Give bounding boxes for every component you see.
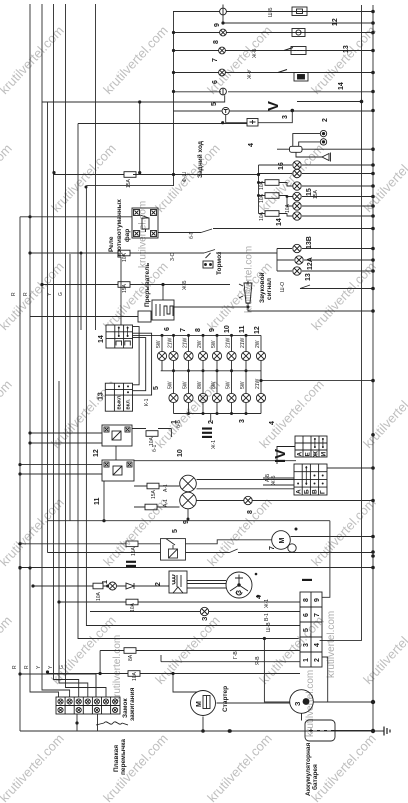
svg-text:1: 1	[102, 580, 109, 584]
battery	[305, 720, 335, 741]
wire row y271 lamp13	[277, 270, 373, 272]
fuse 15A fog	[124, 172, 136, 178]
junction dots bottom	[18, 519, 375, 733]
svg-text:1: 1	[171, 420, 178, 424]
svg-text:6: 6	[212, 80, 219, 84]
svg-text:Ж-Б: Ж-Б	[182, 280, 188, 290]
svg-text:М: М	[279, 538, 286, 544]
svg-text:4: 4	[256, 595, 263, 599]
wire bus-Y2 left vertical	[47, 102, 49, 553]
svg-text:З-О: З-О	[170, 252, 176, 261]
lamp 7	[219, 47, 226, 54]
svg-text:Ф-Ш: Ф-Ш	[182, 172, 188, 182]
svg-text:В: В	[312, 489, 319, 494]
svg-text:8: 8	[247, 510, 254, 514]
svg-text:III: III	[199, 426, 216, 439]
wire fuse row y182	[259, 183, 374, 187]
wire fuse row y213	[259, 206, 374, 216]
svg-text:Звуковой: Звуковой	[258, 272, 266, 303]
wire horn2 stub	[247, 281, 249, 283]
wire gen-battery link	[301, 713, 303, 720]
junction dots lower mid	[18, 431, 374, 569]
relay II box	[161, 539, 186, 561]
wire row y661	[161, 655, 300, 662]
fuse 10A row430	[146, 431, 158, 437]
svg-text:10А: 10А	[122, 252, 128, 262]
connector block 14	[106, 325, 133, 348]
switch row4	[284, 48, 293, 51]
fuse 15A row504	[145, 504, 157, 510]
svg-text:14: 14	[338, 82, 345, 90]
wire connector I cell2 out	[322, 657, 328, 702]
svg-text:12: 12	[332, 18, 339, 26]
wire row y460 relay11 out	[134, 460, 296, 462]
svg-text:2: 2	[322, 118, 329, 122]
wire starter ground	[202, 717, 204, 732]
svg-text:8: 8	[303, 598, 310, 602]
svg-text:10А: 10А	[96, 591, 102, 601]
svg-text:15А: 15А	[122, 283, 128, 293]
box aux left	[138, 311, 151, 322]
wire lamp block columns top	[162, 335, 261, 351]
wire right bus A	[361, 5, 363, 637]
lamp row2 of cluster (7 lamps)	[169, 393, 266, 402]
svg-text:V: V	[265, 101, 282, 111]
svg-text:7: 7	[180, 328, 187, 332]
wire row y102	[42, 95, 225, 102]
svg-text:7: 7	[314, 613, 321, 617]
svg-text:сигнал: сигнал	[266, 278, 273, 300]
wire bus-6 left vertical	[59, 381, 88, 697]
lamp 15b	[293, 192, 301, 200]
svg-text:Ж-Б: Ж-Б	[252, 48, 258, 58]
svg-text:Аккумуляторная: Аккумуляторная	[305, 743, 312, 796]
lamp side marker	[244, 496, 252, 504]
wire bus-8 vertical to block14	[95, 4, 97, 330]
node dots lamp rails	[161, 334, 248, 415]
wire generator feed	[264, 639, 289, 702]
wiper motor M	[272, 531, 296, 553]
svg-text:21W: 21W	[240, 337, 246, 348]
wire bus-G left vertical	[54, 4, 79, 697]
svg-text:2: 2	[208, 420, 215, 424]
wire vertical x172 top feed	[173, 12, 175, 175]
node dot horn row	[371, 147, 375, 151]
svg-text:3: 3	[236, 590, 243, 594]
svg-text:13В: 13В	[306, 236, 313, 249]
fuse 10A row254	[118, 250, 130, 256]
headlight high beam	[180, 475, 197, 492]
wire lamp block columns bottom	[174, 403, 262, 414]
fusible link (Плавкая перемычка)	[96, 722, 128, 725]
svg-text:8: 8	[195, 328, 202, 332]
wire row y248 lamp13B	[277, 248, 373, 250]
svg-text:5: 5	[172, 529, 179, 533]
fuse column 10A a	[265, 180, 279, 186]
wire motor out	[291, 536, 374, 538]
fuse column 10A b	[265, 193, 279, 199]
wire row y639 from bus	[320, 637, 362, 640]
ground symbol	[384, 727, 390, 736]
wire vertical x121	[120, 257, 122, 326]
wire col8 feed to bus	[261, 380, 373, 382]
svg-text:3: 3	[282, 115, 289, 119]
wire lamp block columns middle	[162, 361, 261, 394]
wire row y264 stop switch	[300, 285, 373, 289]
wire row3	[173, 32, 373, 34]
wire row9 via S-box	[226, 111, 293, 123]
fuse 10A row672	[128, 671, 140, 677]
svg-text:Ж-У: Ж-У	[247, 69, 253, 79]
wire row4	[173, 50, 373, 52]
svg-text:4: 4	[248, 143, 255, 147]
svg-text:R: R	[24, 665, 30, 669]
wire vertical x81	[80, 253, 82, 330]
svg-text:Ж: Ж	[313, 451, 320, 458]
svg-text:К-1: К-1	[144, 398, 150, 406]
svg-text:krutilvertel.com: krutilvertel.com	[112, 635, 123, 702]
svg-text:11: 11	[239, 325, 246, 333]
svg-text:Ж-1: Ж-1	[264, 599, 270, 608]
wire right bus B (battery feed)	[372, 5, 374, 731]
wire vertical x70	[69, 254, 71, 521]
svg-text:7: 7	[269, 546, 276, 550]
wire row y260 lamp12A	[277, 259, 373, 261]
svg-text:13: 13	[98, 392, 105, 400]
svg-text:Я-В: Я-В	[255, 656, 261, 665]
wire row y254 fused	[30, 250, 277, 254]
wire block14-13 links	[133, 327, 152, 396]
wire row6 voltmeter	[174, 91, 374, 93]
svg-text:8W: 8W	[211, 381, 217, 389]
horn button contacts	[320, 130, 326, 145]
svg-text:15А: 15А	[126, 178, 132, 188]
wire lamp block mid rail	[161, 370, 261, 372]
washer pump circle	[109, 582, 117, 590]
fuse 15A row483	[147, 483, 159, 489]
svg-text:14: 14	[276, 218, 283, 226]
svg-text:R: R	[11, 292, 17, 296]
svg-text:21W: 21W	[183, 337, 189, 348]
lamp 15a	[293, 182, 301, 190]
wire row y567	[20, 567, 373, 569]
lamp row1 of cluster (8 lamps)	[157, 351, 265, 360]
svg-text:7: 7	[212, 58, 219, 62]
diode symbol	[126, 583, 134, 589]
fuse 15A row543	[126, 541, 138, 547]
sensor T	[222, 107, 229, 114]
wire bus-7 left vertical	[66, 4, 107, 697]
svg-text:5: 5	[153, 386, 160, 390]
wire coil-distributor links	[187, 581, 226, 589]
wire row1 reverse lamp feed	[173, 11, 373, 13]
svg-text:21W: 21W	[255, 378, 261, 389]
connector table upper (А Е Ж И)	[295, 436, 327, 457]
brake switch (Тормоз)	[203, 253, 213, 268]
wire row7	[174, 110, 374, 112]
component box row5	[294, 73, 308, 82]
lamp 16b	[293, 169, 301, 177]
lamp 14a	[293, 202, 301, 210]
svg-text:13: 13	[305, 273, 312, 281]
fuse 15A row284	[118, 282, 130, 288]
junction dots top rows	[52, 10, 374, 176]
svg-text:А-1: А-1	[163, 484, 169, 492]
wire ignition connector drops	[77, 674, 96, 731]
svg-text:R: R	[23, 292, 29, 296]
fuse 10A row586	[93, 583, 103, 589]
relay 11	[102, 460, 134, 481]
starter	[191, 691, 216, 716]
wire bus-Y1 left vertical	[42, 4, 70, 697]
svg-text:Ш-В: Ш-В	[266, 622, 272, 632]
wire starter-generator row	[217, 702, 374, 703]
svg-text:10А: 10А	[259, 180, 265, 190]
svg-text:G: G	[59, 665, 65, 669]
wire row5	[173, 72, 373, 74]
svg-text:10А: 10А	[259, 211, 265, 221]
wire starter feed	[173, 674, 197, 693]
svg-text:А-1: А-1	[163, 499, 169, 507]
svg-text:ВКЛ.: ВКЛ.	[126, 399, 131, 409]
svg-text:перемычка: перемычка	[120, 739, 127, 775]
wire vertical x78	[78, 124, 299, 639]
wire row y552	[48, 549, 374, 553]
fog relay K (Реле противотуманных фар)	[132, 208, 158, 238]
wire row y568 dot feed	[19, 567, 21, 569]
lamp 14b	[293, 212, 301, 220]
wire horn drop	[247, 282, 249, 285]
lamp 6	[219, 69, 226, 76]
svg-text:Ш-Б: Ш-Б	[268, 7, 274, 17]
relay 12	[102, 425, 132, 446]
wire vertical x139.7	[139, 102, 141, 175]
lamp 8	[220, 29, 227, 36]
svg-text:фар: фар	[124, 229, 131, 242]
wire relay12 out	[132, 429, 171, 438]
wire battery to ground	[334, 730, 384, 733]
wire relayII out to motor	[186, 540, 272, 544]
distributor terminals	[255, 573, 260, 598]
svg-text:5W: 5W	[211, 340, 217, 348]
wire row y651	[100, 651, 300, 674]
svg-text:батарея: батарея	[311, 764, 319, 790]
svg-text:Ж-1: Ж-1	[211, 440, 217, 449]
component box row1	[292, 7, 307, 16]
lamp 9 (reverse light)	[220, 5, 227, 15]
svg-text:б-Г: б-Г	[189, 231, 195, 239]
wire row y611	[90, 611, 300, 613]
svg-text:Задний ход: Задний ход	[196, 141, 204, 178]
wire bottom bus	[20, 730, 373, 732]
svg-text:5W: 5W	[183, 381, 189, 389]
svg-text:11: 11	[94, 497, 101, 505]
svg-text:II: II	[123, 560, 140, 568]
svg-text:Замок: Замок	[122, 698, 129, 718]
svg-text:5W: 5W	[156, 340, 162, 348]
svg-text:15А: 15А	[131, 546, 137, 556]
svg-text:16: 16	[278, 162, 285, 170]
svg-text:Тормоз: Тормоз	[216, 251, 223, 275]
turn flasher (Прерыватель) box	[152, 300, 174, 320]
lamp 13B	[293, 244, 301, 252]
wire vertical x277 lamp column	[276, 249, 278, 272]
switch row5	[278, 70, 287, 73]
svg-text:И: И	[321, 452, 328, 457]
wire lamp block top rail	[133, 334, 262, 336]
wire row y602	[59, 601, 300, 603]
wire row8 right stub	[297, 101, 362, 103]
svg-text:4: 4	[269, 421, 276, 425]
svg-text:М: М	[196, 701, 203, 707]
wire row y217	[20, 216, 132, 218]
wire relay11 feeds	[20, 465, 102, 474]
wire row y519	[48, 509, 330, 598]
wire row y543 fused	[20, 543, 161, 545]
svg-text:10А: 10А	[285, 203, 291, 213]
fuse 10A row602	[126, 599, 138, 605]
wire row y471	[325, 467, 373, 469]
ignition switch connector (Замок зажигания)	[56, 697, 120, 714]
fuse 8A row651	[124, 648, 136, 654]
svg-text:9: 9	[314, 598, 321, 602]
lamp 16a	[293, 161, 301, 169]
wire horn feed	[296, 152, 322, 157]
svg-text:4: 4	[314, 643, 321, 647]
sensor 5	[220, 88, 227, 95]
svg-text:Плавкая: Плавкая	[113, 745, 120, 772]
svg-text:3: 3	[239, 419, 246, 423]
generator	[290, 690, 314, 714]
headlight low beam	[180, 492, 197, 509]
svg-text:10А: 10А	[130, 602, 136, 612]
wire horn out row	[248, 303, 373, 311]
svg-text:9: 9	[183, 520, 190, 524]
wire row y173 lamp16b	[259, 173, 374, 175]
wire fuse column vertical x258	[258, 165, 260, 214]
svg-text:противотуманных: противотуманных	[116, 199, 123, 258]
wire flasher drop	[162, 285, 164, 301]
svg-text:5W: 5W	[168, 381, 174, 389]
svg-text:8А: 8А	[128, 654, 134, 661]
svg-text:Ж-Б: Ж-Б	[271, 475, 277, 485]
svg-text:9: 9	[214, 23, 221, 27]
wire ignition feeds bends	[20, 674, 98, 731]
wire flasher feed row	[30, 316, 138, 318]
svg-text:10А: 10А	[259, 193, 265, 203]
junction dots mid right	[28, 163, 374, 382]
svg-text:15: 15	[306, 188, 313, 196]
wire row y232 relay out	[158, 229, 212, 233]
switch box S (reverse switch)	[247, 119, 258, 127]
wire inter-table jog	[277, 447, 295, 465]
svg-text:10А: 10А	[132, 671, 138, 681]
svg-text:2W: 2W	[197, 340, 203, 348]
svg-text:Г: Г	[320, 490, 327, 494]
component box row4	[291, 47, 306, 55]
ignition coil	[169, 571, 187, 593]
wire row1 drop to row2	[222, 15, 224, 24]
wire bus-R1 left vertical	[19, 217, 21, 731]
svg-text:8W: 8W	[197, 381, 203, 389]
svg-text:5: 5	[303, 628, 310, 632]
svg-text:1: 1	[303, 658, 310, 662]
wire lamp block bottom rail	[174, 414, 262, 422]
wire row y478	[263, 478, 294, 485]
fuse column 10A c	[265, 211, 279, 217]
svg-text:15А: 15А	[151, 489, 157, 499]
lamp 12A	[295, 256, 303, 264]
wire fog relay feed corner	[86, 175, 300, 626]
svg-text:R: R	[12, 665, 18, 669]
svg-text:10: 10	[177, 449, 184, 457]
svg-text:12А: 12А	[307, 257, 314, 270]
wire flasher out stub	[174, 306, 248, 308]
svg-text:В-1: В-1	[264, 613, 270, 621]
distributor	[226, 572, 252, 598]
wire bus-R2 left vertical	[30, 4, 59, 697]
svg-text:А: А	[297, 452, 304, 457]
svg-text:6: 6	[164, 327, 171, 331]
svg-text:Е: Е	[305, 452, 312, 457]
svg-text:А: А	[296, 489, 303, 494]
svg-text:Прерыватель: Прерыватель	[144, 263, 151, 307]
svg-text:I: I	[299, 578, 316, 582]
svg-text:15А: 15А	[313, 189, 319, 199]
horn speaker	[322, 153, 331, 162]
svg-text:5: 5	[211, 102, 218, 106]
lamp 3 (glovebox)	[200, 607, 208, 615]
svg-text:10А: 10А	[149, 436, 155, 446]
svg-text:8: 8	[213, 40, 220, 44]
svg-text:21W: 21W	[168, 337, 174, 348]
svg-text:5W: 5W	[226, 381, 232, 389]
svg-text:6: 6	[303, 613, 310, 617]
svg-text:Г-В: Г-В	[233, 651, 239, 659]
connector I grid	[300, 592, 322, 667]
svg-text:12: 12	[93, 449, 100, 457]
wire headlight hi row	[134, 480, 294, 489]
svg-text:14: 14	[98, 335, 105, 343]
svg-text:G: G	[58, 292, 64, 296]
horn (Звуковой сигнал)	[239, 283, 252, 303]
wire relay12 feeds	[30, 433, 102, 443]
horn relay box	[290, 146, 303, 152]
svg-text:13: 13	[343, 45, 350, 53]
svg-text:ВЫКЛ.: ВЫКЛ.	[117, 395, 122, 410]
wire row y175	[54, 174, 259, 176]
svg-text:9: 9	[209, 328, 216, 332]
wire row2	[223, 22, 373, 24]
wire row y165 lamp16a	[259, 164, 374, 166]
svg-text:Ш-О: Ш-О	[280, 282, 286, 292]
lamp 13	[293, 267, 301, 275]
svg-text:зажигания: зажигания	[129, 687, 136, 721]
svg-text:21W: 21W	[226, 337, 232, 348]
wire horn row	[277, 148, 373, 150]
svg-text:12: 12	[254, 326, 261, 334]
svg-text:Реле: Реле	[108, 236, 115, 252]
svg-text:2W: 2W	[255, 340, 261, 348]
wire row y672	[48, 673, 301, 675]
svg-text:З: З	[295, 701, 302, 706]
wire relay12-11 link	[115, 446, 117, 460]
wire relay11 drop	[103, 481, 105, 521]
svg-text:2: 2	[155, 582, 162, 586]
svg-text:5W: 5W	[240, 381, 246, 389]
svg-text:3: 3	[303, 643, 310, 647]
wire row9 left part	[78, 123, 247, 125]
